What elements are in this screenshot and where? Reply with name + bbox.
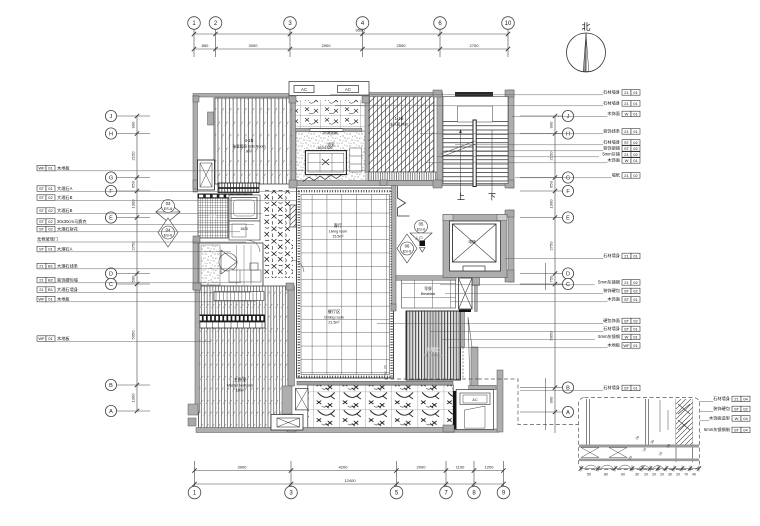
- svg-text:W: W: [625, 335, 629, 340]
- leader wire: [37, 268, 233, 270]
- fixture: AC unit 1: [294, 86, 314, 93]
- dimension tick: [394, 468, 398, 472]
- fixture: wardrobe black band: [198, 315, 265, 323]
- sliding door marks: [303, 174, 343, 182]
- svg-text:装饰硬包: 装饰硬包: [603, 287, 621, 294]
- svg-text:02: 02: [48, 208, 53, 213]
- svg-text:ST: ST: [624, 289, 630, 294]
- leader wire: [117, 217, 150, 219]
- column: [286, 283, 294, 290]
- detail: arc row: [585, 465, 663, 468]
- svg-text:20: 20: [660, 473, 664, 477]
- label row left y=251: [37, 246, 46, 252]
- dimension tick: [444, 468, 448, 472]
- svg-text:5mm灰镜钢: 5mm灰镜钢: [598, 279, 620, 286]
- stair center stringer: [473, 120, 476, 187]
- door arc master bath: [247, 240, 260, 252]
- svg-text:ES-6: ES-6: [164, 207, 172, 211]
- svg-text:01: 01: [633, 90, 638, 95]
- dimension strip below kids room: [218, 183, 259, 188]
- svg-text:WF: WF: [38, 336, 45, 341]
- detail: bottom dimension ticks: [581, 468, 699, 470]
- svg-text:石材墙身: 石材墙身: [713, 395, 730, 402]
- leader wire: [437, 156, 599, 158]
- svg-text:电梯: 电梯: [468, 239, 476, 244]
- left dimension numbers (rotated): [131, 121, 136, 403]
- svg-text:G: G: [109, 175, 113, 181]
- svg-text:石材墙身: 石材墙身: [603, 252, 620, 259]
- label row left y=301: [37, 296, 46, 302]
- svg-text:01: 01: [633, 112, 638, 117]
- svg-text:21: 21: [39, 278, 44, 283]
- svg-text:01: 01: [633, 254, 638, 259]
- svg-text:5mm灰镜钢制: 5mm灰镜钢制: [704, 426, 730, 433]
- svg-text:01: 01: [48, 297, 53, 302]
- room: kitchen dense mosaic: [198, 194, 228, 238]
- wall: between kids room and bath: [292, 98, 296, 186]
- leader wire: [117, 133, 150, 135]
- leader wire: [520, 273, 562, 275]
- svg-text:750: 750: [549, 275, 554, 282]
- wall: top of plan: [193, 94, 293, 98]
- svg-text:1100: 1100: [456, 465, 465, 470]
- svg-text:H: H: [109, 131, 113, 137]
- svg-text:ST: ST: [39, 208, 45, 213]
- leader wire: [520, 115, 562, 117]
- svg-text:石材墙身: 石材墙身: [603, 384, 620, 391]
- svg-text:03: 03: [166, 201, 171, 206]
- svg-text:850: 850: [202, 43, 209, 48]
- dimension tick: [438, 32, 442, 36]
- leader wire: [450, 301, 607, 303]
- svg-text:上: 上: [457, 193, 465, 202]
- leader wire: [37, 231, 240, 233]
- wall: band below bedrooms row: [291, 181, 512, 186]
- svg-text:装饰硬包: 装饰硬包: [713, 405, 731, 412]
- svg-text:孩童房间 Kids Room: 孩童房间 Kids Room: [233, 144, 266, 149]
- hatched pier left of living room: [290, 205, 296, 227]
- svg-text:厨房: 厨房: [209, 214, 217, 219]
- dimension tick: [192, 468, 196, 472]
- fixture: shower box: [305, 151, 346, 175]
- leader wire: [512, 115, 607, 117]
- svg-text:02: 02: [48, 227, 53, 232]
- leader wire: [445, 292, 603, 294]
- svg-text:D: D: [109, 271, 113, 277]
- svg-text:20: 20: [644, 473, 648, 477]
- svg-text:1300: 1300: [549, 199, 554, 209]
- svg-text:2550: 2550: [397, 43, 407, 48]
- stair up arrow line: [460, 130, 462, 196]
- svg-text:40: 40: [692, 473, 696, 477]
- svg-text:21.5m²: 21.5m²: [328, 321, 340, 325]
- svg-text:大理石A: 大理石A: [57, 185, 73, 192]
- room: master bathroom: [199, 243, 263, 287]
- black bar left of AC closet: [453, 391, 456, 430]
- svg-text:木地板: 木地板: [57, 165, 70, 172]
- room: shower room small: [229, 221, 260, 240]
- svg-text:木地板: 木地板: [57, 296, 70, 303]
- svg-text:4200: 4200: [339, 465, 349, 470]
- label row left y=190.5: [37, 186, 46, 192]
- detail: mirror X shapes: [678, 404, 690, 430]
- entry box with X (bottom center): [271, 415, 303, 431]
- svg-text:入户: 入户: [415, 235, 423, 241]
- svg-text:5mm灰镜钢: 5mm灰镜钢: [598, 333, 620, 340]
- svg-text:2000: 2000: [417, 465, 427, 470]
- room labels: [209, 116, 476, 393]
- door: lobby entry zigzag: [398, 186, 410, 216]
- svg-text:50: 50: [587, 473, 591, 477]
- grid bubble 5 bottom: [390, 486, 403, 499]
- staircase: [441, 97, 508, 202]
- svg-text:ST: ST: [624, 386, 630, 391]
- stipple cells right of shower: [350, 148, 362, 172]
- svg-text:21: 21: [624, 152, 629, 157]
- leader wire: [330, 94, 603, 96]
- svg-text:01: 01: [633, 327, 638, 332]
- svg-text:2900: 2900: [322, 43, 332, 48]
- column: [188, 418, 196, 426]
- wall: right outer upper: [509, 90, 515, 188]
- grid bubble 10 top: [502, 17, 515, 30]
- leader wire: [660, 400, 713, 402]
- grid bubble E right: [562, 212, 573, 223]
- shaft with X near study: [459, 278, 473, 309]
- svg-text:硬包饰面: 硬包饰面: [603, 317, 620, 324]
- svg-text:02: 02: [633, 173, 638, 178]
- svg-text:J: J: [567, 114, 570, 120]
- column: [193, 283, 201, 290]
- svg-text:Dining room: Dining room: [324, 316, 343, 320]
- left vertical dimension line: [136, 116, 138, 411]
- dimension tick: [192, 32, 196, 36]
- dimension tick: [501, 468, 505, 472]
- svg-text:02: 02: [48, 219, 53, 224]
- svg-text:900: 900: [549, 121, 554, 128]
- column: [362, 96, 369, 103]
- svg-text:21: 21: [624, 173, 629, 178]
- dimension tick: [506, 32, 510, 36]
- grid bubble F right: [562, 185, 573, 196]
- svg-text:大理石拼花: 大理石拼花: [57, 226, 78, 233]
- svg-text:21: 21: [624, 90, 629, 95]
- svg-text:9500: 9500: [356, 28, 366, 33]
- svg-text:石材墙身: 石材墙身: [603, 325, 620, 332]
- callout: 05/ES-6 circle-diamond: [410, 220, 432, 243]
- svg-text:01: 01: [48, 336, 53, 341]
- svg-text:G: G: [566, 175, 570, 181]
- column: [193, 180, 200, 189]
- svg-text:01: 01: [633, 158, 638, 163]
- grid bubble C left: [105, 278, 116, 289]
- svg-text:2150: 2150: [549, 151, 554, 161]
- svg-text:大理石A: 大理石A: [57, 246, 73, 253]
- svg-text:W: W: [625, 158, 629, 163]
- label row left y=231: [37, 226, 46, 232]
- svg-text:21: 21: [624, 129, 629, 134]
- grid bubble 1 top: [188, 17, 201, 30]
- svg-text:石材墙身: 石材墙身: [603, 89, 620, 96]
- bottom grid dimension lines: [195, 461, 504, 487]
- svg-text:ST: ST: [624, 297, 630, 302]
- svg-text:ST: ST: [39, 227, 45, 232]
- svg-text:A: A: [566, 410, 570, 416]
- svg-text:01: 01: [48, 247, 53, 252]
- dashed connector from plan to detail: [385, 365, 478, 379]
- column: [193, 236, 200, 243]
- fixture: AC unit 2: [338, 86, 359, 93]
- svg-text:1520: 1520: [240, 227, 248, 231]
- svg-text:01: 01: [633, 335, 638, 340]
- svg-text:21: 21: [39, 264, 44, 269]
- svg-text:12400: 12400: [344, 478, 356, 483]
- svg-text:2F淋浴间: 2F淋浴间: [323, 130, 338, 135]
- svg-text:01: 01: [633, 343, 638, 348]
- curtain dashed column: [462, 316, 464, 378]
- dimension tick: [472, 468, 476, 472]
- svg-text:Master bedroom: Master bedroom: [227, 384, 253, 388]
- top grid dimension lines: [194, 30, 508, 58]
- svg-text:900: 900: [549, 396, 554, 403]
- leader wire: [420, 133, 603, 135]
- svg-text:WF: WF: [623, 343, 630, 348]
- svg-text:B1: B1: [48, 264, 54, 269]
- marker: black square: [420, 241, 426, 247]
- svg-text:30x30cm马赛克: 30x30cm马赛克: [57, 218, 87, 225]
- svg-text:木饰面: 木饰面: [607, 110, 620, 117]
- small door arc living to hallway: [293, 260, 304, 272]
- svg-text:木饰面: 木饰面: [607, 157, 620, 164]
- room: foyer decorative tiles (bottom): [308, 385, 453, 429]
- svg-text:ST: ST: [734, 428, 740, 433]
- wall: left outer: [193, 96, 198, 192]
- column: [505, 210, 514, 217]
- svg-text:E: E: [109, 215, 113, 221]
- wall: living/lobby divider: [392, 186, 396, 311]
- long leader line top-left label: [67, 170, 366, 172]
- svg-text:B: B: [566, 385, 570, 391]
- callout: 03 circle-diamond left: [156, 200, 180, 223]
- svg-text:5mm灰镜: 5mm灰镜: [602, 151, 620, 158]
- svg-text:Media 9.5m²: Media 9.5m²: [424, 354, 444, 358]
- svg-text:01: 01: [48, 186, 53, 191]
- grid bubble J left: [105, 110, 116, 121]
- svg-text:ES-6: ES-6: [403, 250, 411, 254]
- svg-text:80: 80: [604, 473, 608, 477]
- grid bubble 3 bottom: [285, 486, 298, 499]
- svg-text:Breakfast: Breakfast: [421, 292, 435, 296]
- svg-text:装饰线条: 装饰线条: [603, 128, 621, 135]
- bottom wall under AC closet: [454, 429, 499, 432]
- svg-text:06: 06: [405, 244, 410, 249]
- dimension tick: [360, 32, 364, 36]
- fixture: vanity cells: [229, 270, 261, 282]
- shaft with X near foyer: [296, 388, 309, 410]
- label row left y=223.5: [37, 219, 46, 225]
- svg-text:ES-6: ES-6: [417, 228, 425, 232]
- svg-text:ST: ST: [39, 195, 45, 200]
- svg-text:920x1520: 920x1520: [318, 146, 333, 150]
- room: bathroom stipple shower zone: [296, 131, 366, 182]
- svg-text:5050: 5050: [549, 331, 554, 341]
- grid bubble 1 bottom: [188, 486, 201, 499]
- wall: bottom outer: [196, 428, 454, 433]
- svg-text:装饰银镜: 装饰银镜: [603, 145, 621, 152]
- svg-text:2150: 2150: [131, 151, 136, 161]
- grid bubble B right: [562, 382, 573, 393]
- svg-text:木饰面: 木饰面: [607, 296, 620, 303]
- grid bubble 6 top: [434, 17, 447, 30]
- svg-text:石材墙身: 石材墙身: [603, 139, 620, 146]
- svg-text:AC: AC: [472, 397, 478, 402]
- label row left y=340.5: [37, 336, 46, 342]
- svg-text:4-1B: 4-1B: [245, 138, 254, 143]
- svg-text:ST: ST: [624, 140, 630, 145]
- dimension tick: [213, 32, 217, 36]
- svg-text:2700: 2700: [470, 43, 480, 48]
- svg-text:02: 02: [633, 280, 638, 285]
- svg-text:A: A: [109, 409, 113, 415]
- column: [287, 425, 296, 432]
- callout: 04 diamond left: [158, 218, 178, 247]
- svg-text:2750: 2750: [131, 241, 136, 251]
- svg-text:21: 21: [624, 254, 629, 259]
- room: master bedroom planks (bottom-left): [199, 286, 289, 428]
- svg-text:5050: 5050: [131, 330, 136, 340]
- svg-text:ST: ST: [624, 146, 630, 151]
- wall: stair left: [437, 92, 443, 186]
- fixture: toilet: [250, 263, 258, 270]
- leader wire: [37, 190, 300, 192]
- dimension tick: [289, 468, 293, 472]
- svg-text:60: 60: [621, 473, 625, 477]
- column: [193, 96, 199, 102]
- dimension tick: [288, 32, 292, 36]
- leader wire: [520, 387, 562, 389]
- svg-text:30: 30: [668, 473, 672, 477]
- label row left y=282: [37, 277, 46, 283]
- column: [433, 90, 442, 97]
- svg-text:客厅: 客厅: [334, 222, 342, 229]
- svg-text:20: 20: [652, 473, 656, 477]
- svg-text:1-1B: 1-1B: [395, 116, 404, 121]
- leader wire: [117, 273, 150, 275]
- svg-text:05: 05: [419, 222, 424, 227]
- svg-text:01: 01: [633, 101, 638, 106]
- leader wire: [117, 115, 150, 117]
- svg-text:W: W: [735, 416, 739, 421]
- svg-text:02: 02: [633, 319, 638, 324]
- svg-text:21: 21: [734, 397, 739, 402]
- svg-text:ST: ST: [624, 319, 630, 324]
- svg-text:ST: ST: [39, 247, 45, 252]
- svg-text:650: 650: [549, 180, 554, 187]
- leader wire: [37, 212, 262, 214]
- grid bubble A right: [562, 406, 573, 417]
- svg-text:下: 下: [488, 193, 496, 202]
- svg-text:15.5m²: 15.5m²: [332, 235, 344, 239]
- leader wire: [455, 144, 603, 146]
- leader wire: [448, 347, 607, 349]
- leader wire: [652, 431, 701, 433]
- grid bubble G right: [562, 172, 573, 183]
- leader wire: [645, 410, 713, 412]
- svg-text:02: 02: [633, 289, 638, 294]
- leader wire: [648, 420, 709, 422]
- grid bubble D right: [562, 268, 573, 279]
- svg-text:ST: ST: [734, 407, 740, 412]
- leader wire: [37, 251, 231, 253]
- svg-text:ST: ST: [624, 327, 630, 332]
- svg-text:21: 21: [624, 101, 629, 106]
- leader wire: [440, 284, 595, 286]
- svg-text:01: 01: [633, 297, 638, 302]
- svg-text:2750: 2750: [549, 241, 554, 251]
- svg-text:大理石线条: 大理石线条: [57, 263, 79, 270]
- svg-text:W: W: [625, 112, 629, 117]
- leader wire: [520, 190, 562, 192]
- svg-text:70: 70: [684, 473, 688, 477]
- room: master bedroom 2 diagonal planks (top-right): [368, 96, 434, 172]
- svg-text:16m²: 16m²: [236, 389, 245, 393]
- svg-text:早餐: 早餐: [424, 286, 432, 291]
- label row left y=170: [37, 165, 46, 171]
- grid bubble 8 bottom: [468, 486, 481, 499]
- svg-text:02: 02: [48, 195, 53, 200]
- svg-text:1200: 1200: [485, 465, 495, 470]
- detail: rotated dims: [628, 435, 672, 461]
- svg-text:21: 21: [39, 287, 44, 292]
- svg-text:1300: 1300: [131, 393, 136, 403]
- leader wire: [37, 340, 211, 342]
- label row left y=291.5: [37, 287, 46, 293]
- wall stub below elevator: [472, 277, 480, 285]
- svg-text:01: 01: [633, 386, 638, 391]
- svg-text:21: 21: [624, 280, 629, 285]
- leader wire: [520, 389, 603, 391]
- svg-text:B2: B2: [48, 278, 54, 283]
- svg-text:D: D: [566, 271, 570, 277]
- top dimension numbers: [202, 28, 480, 49]
- svg-text:ST: ST: [39, 186, 45, 191]
- svg-text:影音室: 影音室: [427, 346, 439, 352]
- svg-text:3900: 3900: [238, 465, 248, 470]
- svg-text:650: 650: [131, 180, 136, 187]
- column: [505, 270, 514, 282]
- leader wire: [377, 322, 603, 324]
- column: [433, 180, 442, 188]
- leader wire: [515, 177, 612, 179]
- grid bubble 7 bottom: [440, 486, 453, 499]
- svg-text:墙纸: 墙纸: [612, 172, 621, 179]
- leader wire: [520, 283, 562, 285]
- wall: below elevator / above breakfast nook: [396, 276, 456, 281]
- svg-text:B1: B1: [48, 287, 54, 292]
- wall: small pier left: [208, 112, 214, 125]
- room: bathroom mosaic tiles (top-middle): [295, 100, 367, 131]
- leader wire: [425, 162, 607, 164]
- grid bubble 2 top: [209, 17, 222, 30]
- room: hallway leaf tiles: [264, 190, 291, 260]
- room: study dark wood stripes: [406, 311, 461, 380]
- svg-text:30: 30: [635, 473, 639, 477]
- leader wire: [37, 301, 256, 303]
- leader wire: [117, 384, 150, 386]
- leader wire: [117, 410, 150, 412]
- svg-text:Living room: Living room: [329, 230, 348, 234]
- leader wire: [117, 190, 150, 192]
